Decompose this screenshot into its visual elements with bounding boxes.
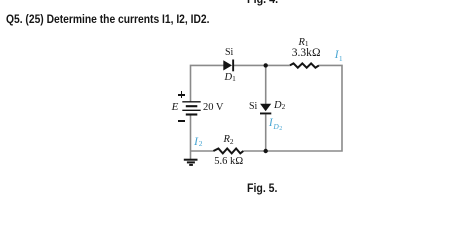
battery E short thick plate 1 [186,105,198,107]
diode D2 cathode bar [260,113,271,115]
wire: D2 branch lower segment (D2 cathode to node B) [265,114,267,151]
wire: left vertical rail (E- down to ground) [190,116,192,160]
label: resistor designator R2 [224,135,234,146]
battery E positive long plate [182,101,200,103]
label: battery plus sign [0,0,1,1]
resistor R2 zigzag [213,149,243,154]
diode D1 cathode bar [232,60,234,72]
ground symbol bar 3 [189,164,193,166]
wire: bottom rail left segment (ground node to R2) [191,150,214,152]
wire: top rail left segment (E+ node to D1 anode) [191,65,224,101]
label: current I1 (blue) [0,0,1,1]
label: diode designator D1 [225,73,236,84]
wire: D2 branch upper segment (node A to D2 anode) [265,65,267,104]
label: battery minus sign [0,0,1,1]
label: resistor value 5.6 kOhm [214,157,243,168]
label: resistor designator R1 [299,38,309,49]
label: resistor value 3.3 kOhm [292,48,321,60]
resistor R1 zigzag [290,63,319,67]
wire: top rail right segment (R1 to corner), right rail, bottom rail right segment [243,65,342,151]
diode D1 (Si) triangle [223,60,232,70]
label: diode designator D2 [274,101,285,112]
ground symbol bar 2 [187,161,195,163]
label: D2 material Si [249,102,257,112]
wire: top rail middle segment (D1 cathode to R1, through node A) [234,64,290,66]
diode D2 (Si) triangle [260,104,271,111]
battery E short thick plate 2 [186,113,198,115]
node B junction dot (bottom rail / D2 branch) [264,149,268,153]
label: source designator E [172,102,179,113]
label: D1 material Si [225,48,233,58]
battery E long thin plate 2 [182,109,200,111]
caption Fig. 4. (cut off at top edge) [247,0,278,6]
ground symbol bar 1 [184,159,198,161]
caption Fig. 5. [247,183,277,195]
label: current I2 (blue) [0,0,1,1]
label: current ID2 (blue) [0,0,1,1]
label: source value 20 V [203,103,224,114]
node A junction dot (top rail / D2 branch) [264,63,268,67]
title: question text [6,13,209,25]
